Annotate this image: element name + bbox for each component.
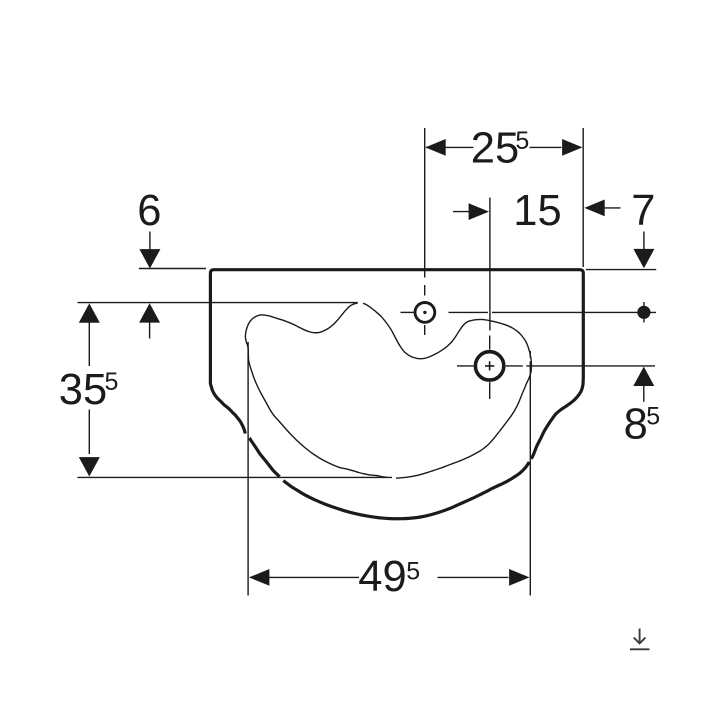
faucet centerline long segment to the right bbox=[526, 365, 655, 367]
svg-text:35: 35 bbox=[59, 366, 107, 414]
svg-text:5: 5 bbox=[515, 127, 529, 155]
svg-text:7: 7 bbox=[631, 187, 655, 235]
dimension 7 down arrow stem bbox=[643, 232, 645, 251]
svg-text:5: 5 bbox=[406, 558, 420, 586]
top edge left reference line bbox=[139, 268, 206, 270]
dimension 49.5 right arrowhead bbox=[509, 569, 529, 586]
basin outer shell bottom arc main piece bbox=[283, 462, 529, 519]
svg-text:8: 8 bbox=[624, 400, 648, 448]
dimension 7 arrow stem bbox=[604, 207, 621, 209]
dimension 25.5 line right segment bbox=[530, 146, 562, 148]
faucet hole top tick bbox=[489, 336, 491, 350]
inner bowl bottom reference line bbox=[78, 476, 393, 478]
basin outer shell bottom arc upper-left piece bbox=[249, 438, 279, 477]
dimension 15 extension line bbox=[489, 198, 491, 331]
download icon bbox=[630, 629, 650, 650]
dimension 25.5 left extension line bbox=[424, 128, 426, 270]
tap hole center dot bbox=[423, 311, 426, 314]
dimension 7 down arrowhead bbox=[633, 249, 654, 268]
dimension 49.5 left arrowhead bbox=[249, 569, 269, 586]
inner bowl outline right part: flat top, middle dip, dome, right side down to bottom bbox=[363, 303, 531, 478]
supply centerline dash bbox=[449, 311, 489, 313]
dimension 49.5 right extension line bbox=[529, 361, 531, 595]
dimension 35.5 down arrowhead bbox=[79, 457, 100, 476]
dimension 25.5 right extension line bbox=[582, 128, 584, 267]
tap hole circle bbox=[415, 303, 435, 323]
basin outer shell outline: left flare, left side, top edge, right side, right flare bbox=[210, 270, 583, 459]
dimension 35.5 lower stem bbox=[88, 410, 90, 455]
dimension 6 up arrowhead bbox=[139, 303, 160, 322]
dimension 49.5 right extension line top dash bbox=[529, 351, 531, 358]
dimension 8.5 stem bbox=[643, 386, 645, 402]
dimension 35.5 upper stem bbox=[88, 322, 90, 366]
dimension 6 up arrow stem bbox=[149, 322, 151, 339]
supply dot vertical tick bbox=[643, 302, 645, 323]
dimension 25.5 line left segment bbox=[426, 146, 474, 148]
dimension 6 down arrow stem bbox=[149, 232, 151, 251]
svg-text:5: 5 bbox=[646, 403, 660, 431]
dimension 25.5 right arrowhead bbox=[562, 139, 582, 156]
dimension 25.5 left arrowhead bbox=[425, 139, 445, 156]
inner bowl outline left part: wave, left edge, bottom-left bbox=[245, 303, 387, 477]
svg-text:15: 15 bbox=[513, 187, 561, 235]
dimension 7 arrowhead bbox=[584, 200, 604, 217]
top edge right reference line bbox=[586, 269, 656, 271]
dimension 15 arrow stem bbox=[453, 211, 470, 213]
faucet hole center cross bbox=[485, 361, 494, 370]
svg-text:5: 5 bbox=[105, 368, 119, 396]
tap hole centerline vertical dashes bbox=[424, 271, 426, 335]
inner bowl top reference line bbox=[78, 302, 358, 304]
supply connection dot bbox=[637, 306, 650, 319]
faucet hole left tick bbox=[457, 365, 474, 367]
dimension 49.5 line right segment bbox=[438, 576, 509, 578]
faucet centerline short segment right of circle bbox=[506, 365, 523, 367]
svg-text:25: 25 bbox=[471, 125, 519, 173]
dimension 49.5 line left segment bbox=[250, 576, 359, 578]
dimension 6 down arrowhead bbox=[139, 249, 160, 268]
dimension 35.5 up arrowhead bbox=[79, 303, 100, 322]
faucet hole bottom tick bbox=[489, 382, 491, 399]
dimension 15 arrowhead bbox=[469, 203, 489, 220]
svg-text:49: 49 bbox=[358, 553, 406, 601]
supply centerline bbox=[492, 311, 656, 313]
dimension 49.5 left extension line bbox=[247, 342, 249, 596]
dimension 8.5 up arrowhead bbox=[633, 367, 654, 386]
svg-text:6: 6 bbox=[137, 187, 161, 235]
faucet hole circle bbox=[475, 352, 503, 380]
tap hole left tick bbox=[401, 311, 414, 313]
